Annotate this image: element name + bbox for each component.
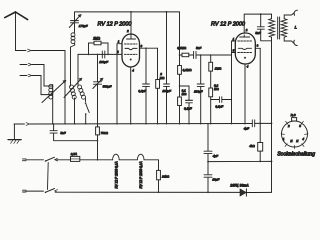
node bus dots	[52, 123, 54, 125]
antenna	[5, 12, 28, 20]
wire U2 anode lead pin 2	[244, 14, 271, 33]
svg-text:2: 2	[245, 28, 248, 32]
svg-text:0,1μF: 0,1μF	[184, 107, 192, 111]
svg-text:1: 1	[233, 37, 235, 41]
capacitor C8 0,1uF	[211, 99, 219, 101]
arrow variable adjust L3 L4	[64, 79, 81, 98]
wire antenna tap 2	[20, 64, 27, 66]
inductor L3 tuned coil left	[70, 47, 72, 86]
svg-text:100pF: 100pF	[194, 90, 203, 94]
socket diagram circle	[282, 121, 308, 147]
terminal mains bottom	[23, 190, 27, 192]
U1 pin 1 lead	[117, 44, 122, 124]
resistor R2 2M	[157, 48, 159, 79]
switch S2a mains	[45, 160, 47, 162]
svg-text:L: L	[295, 24, 297, 29]
capacitor C3 grid 100pF	[102, 51, 105, 58]
capacitor C2 tuning 500pF	[97, 54, 99, 81]
svg-text:3: 3	[257, 44, 259, 48]
capacitor C5 rail bypass 100pF	[166, 12, 168, 84]
svg-text:4: 4	[247, 65, 249, 69]
capacitor C1 trimmer 170pF	[74, 12, 76, 20]
svg-text:4μF: 4μF	[213, 154, 218, 158]
node coupling junction	[179, 54, 181, 56]
capacitor C10 chassis 5nF	[53, 124, 55, 131]
wire top rail left	[75, 11, 180, 13]
svg-text:Sockelschaltung: Sockelschaltung	[277, 151, 315, 157]
transformer T1 output primary	[271, 14, 273, 19]
svg-text:700Ω: 700Ω	[101, 131, 109, 135]
U1 grid 1 dashed	[125, 43, 138, 45]
node junctions grid line	[88, 54, 90, 56]
resistor R3 0,1M	[178, 66, 182, 75]
svg-text:2: 2	[287, 124, 290, 128]
svg-text:0,1MΩ: 0,1MΩ	[183, 68, 193, 72]
svg-text:5nF: 5nF	[196, 46, 201, 50]
U1 anode plate	[127, 36, 136, 39]
svg-text:RV 12 P 2000: RV 12 P 2000	[211, 22, 246, 28]
arrow variable adjust L1	[42, 81, 65, 103]
svg-text:5nF: 5nF	[255, 31, 260, 35]
tube U2 RV12P2000 envelope	[235, 33, 255, 64]
svg-text:16μF: 16μF	[212, 178, 219, 182]
U1 heater dot	[130, 59, 132, 61]
svg-text:H: H	[296, 139, 299, 143]
transformer T1 secondary	[281, 19, 287, 37]
resistor R4 0,1M	[179, 74, 181, 97]
wire U2 pin 4 lead	[244, 64, 246, 124]
resistor R7 0,2M	[209, 88, 213, 97]
svg-text:4: 4	[302, 137, 304, 141]
U2 grid 1 dashed pin 1	[238, 40, 252, 42]
wire bottom bus	[55, 191, 240, 193]
wire antenna tap 3	[20, 75, 27, 77]
capacitor C4 cathode bypass	[145, 48, 147, 84]
svg-text:5: 5	[117, 50, 119, 54]
terminal speaker top	[294, 10, 297, 15]
wire mains bottom	[26, 190, 44, 192]
resistor R8 700 ohm	[97, 124, 99, 127]
svg-text:1: 1	[118, 40, 120, 44]
U2 anode plate	[240, 35, 250, 37]
wire rail end drop	[179, 12, 181, 66]
wire mains top	[26, 159, 44, 161]
wire tube2 grid riser	[232, 41, 236, 55]
svg-text:5: 5	[233, 48, 235, 52]
svg-text:MΩ: MΩ	[214, 87, 219, 91]
ground symbol	[13, 124, 15, 139]
resistor R5 0,1M coupling	[180, 54, 183, 56]
socket key notch	[292, 118, 297, 121]
switch S1 wave band	[85, 102, 87, 104]
svg-text:0,5A: 0,5A	[71, 152, 77, 156]
svg-text:4kΩ: 4kΩ	[249, 144, 255, 148]
diode D1 rectifier	[240, 189, 246, 196]
inductor L2 coupling coil	[71, 33, 75, 37]
wire antenna tap 1	[32, 51, 66, 124]
capacitor C13 4uF bus	[252, 120, 254, 127]
terminal speaker bottom	[294, 40, 297, 45]
svg-text:0,1MΩ: 0,1MΩ	[177, 46, 187, 50]
svg-text:24kΩ: 24kΩ	[161, 174, 170, 178]
wire U1 pin 4 lead	[130, 67, 132, 124]
wire ground bus	[14, 123, 25, 125]
heater U2 bump	[137, 154, 144, 160]
wire U1 pin3 branch	[140, 47, 158, 49]
U1 grid 2 dashed pin 5	[125, 53, 138, 55]
capacitor C7 grid2 100pF	[200, 54, 202, 56]
capacitor C14 screen bypass 0,1uF	[180, 86, 190, 100]
capacitor C11 filter 4uF	[207, 124, 209, 151]
svg-text:0,1μF: 0,1μF	[215, 105, 223, 109]
inductor L4 tuned coil right	[77, 54, 79, 86]
socket pin ticks	[281, 121, 308, 148]
svg-text:MΩ: MΩ	[182, 92, 187, 96]
svg-text:0,1μF: 0,1μF	[138, 89, 146, 93]
svg-text:RV 12 P 2000 0,1A: RV 12 P 2000 0,1A	[114, 161, 118, 188]
svg-text:4μF: 4μF	[244, 126, 249, 130]
U2 cathode element pin 3	[238, 48, 251, 49]
wire U1 anode lead pin 2	[130, 12, 132, 36]
resistor R10 4k	[259, 123, 261, 142]
svg-text:100pF: 100pF	[99, 60, 109, 64]
wire speaker bottom	[284, 37, 294, 43]
svg-text:RV 12 P 2000: RV 12 P 2000	[98, 22, 133, 28]
svg-text:4: 4	[132, 69, 134, 73]
svg-text:1MΩ: 1MΩ	[215, 67, 222, 71]
svg-text:MΩ: MΩ	[160, 76, 165, 80]
switch S2b mains	[45, 192, 47, 194]
svg-text:100pF: 100pF	[162, 89, 171, 93]
node rail dots	[130, 11, 132, 13]
wire speaker top	[284, 13, 294, 19]
resistor R9 dropper 24k	[157, 170, 161, 179]
U2 grid 2 dashed pin 5	[238, 52, 252, 54]
svg-text:3: 3	[141, 44, 143, 48]
svg-text:H: H	[290, 139, 293, 143]
transformer T1 core	[278, 17, 280, 39]
svg-text:1: 1	[283, 137, 285, 141]
svg-text:2MΩ: 2MΩ	[92, 37, 100, 41]
terminal mains top	[23, 159, 27, 161]
resistor R1 grid leak 2M	[89, 43, 95, 54]
svg-text:170pF: 170pF	[79, 24, 89, 28]
U1 cathode element pin 3	[125, 48, 137, 49]
svg-text:RV 12 P 2000 0,1A: RV 12 P 2000 0,1A	[139, 161, 143, 188]
resistor R6 1M grid	[210, 54, 212, 56]
fuse F1 0,5A	[71, 156, 80, 161]
wire heater line	[80, 159, 113, 161]
svg-text:5: 5	[299, 124, 301, 128]
capacitor C12 filter 16uF	[204, 175, 212, 177]
node anode wire dot	[260, 13, 262, 15]
wire B+ long vertical	[271, 41, 273, 193]
capacitor C9 tone 5nF	[260, 14, 262, 27]
wire antenna lead-in	[16, 13, 27, 51]
wire B+ link	[208, 160, 272, 162]
svg-text:5nF: 5nF	[60, 131, 65, 135]
node antenna connector	[28, 49, 32, 52]
svg-text:240V, 30mA: 240V, 30mA	[229, 183, 249, 187]
tube U1 RV12P2000 envelope	[122, 34, 140, 67]
wire grid line tube1	[78, 53, 122, 55]
wire U2 pin3 drop	[259, 48, 261, 123]
switch link bar	[47, 163, 50, 190]
heater U1 bump	[113, 154, 120, 160]
capacitor C6 coupling 5nF	[194, 51, 196, 58]
svg-text:500pF: 500pF	[103, 85, 113, 89]
U2 heater dot	[244, 57, 246, 59]
inductor L1 antenna coil	[52, 85, 54, 124]
svg-text:2: 2	[126, 29, 129, 33]
svg-text:D,S: D,S	[291, 113, 296, 117]
